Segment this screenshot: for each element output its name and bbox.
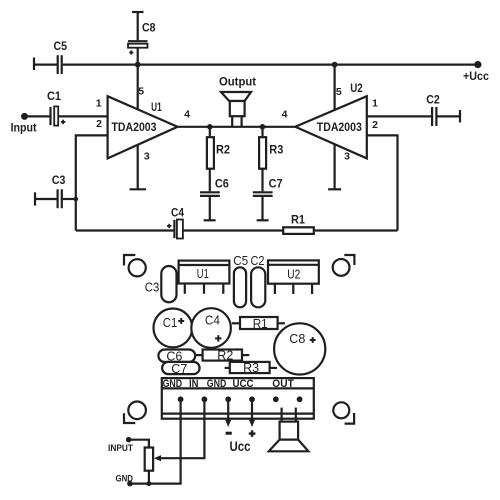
op-amp U1 TDA2003 bbox=[108, 96, 178, 158]
label C8 pcb polarity + bbox=[310, 337, 316, 343]
svg-text:R2: R2 bbox=[217, 348, 233, 363]
label minus bbox=[226, 432, 232, 435]
svg-text:C1: C1 bbox=[163, 315, 178, 330]
wire C7 bottom lead bbox=[261, 196, 263, 220]
svg-text:C2: C2 bbox=[251, 253, 265, 268]
capacitor C8 top terminal tick bbox=[132, 11, 144, 13]
IC U1 footprint bbox=[179, 261, 230, 284]
svg-text:1: 1 bbox=[96, 98, 102, 110]
node pad 5 OUT bbox=[273, 396, 279, 402]
capacitor C5 bbox=[58, 55, 62, 74]
svg-text:C2: C2 bbox=[426, 95, 440, 107]
node input dot bbox=[126, 437, 132, 443]
wire pad2 to potentiometer wiper bbox=[159, 401, 205, 458]
arrow pad4 down bbox=[249, 420, 255, 427]
svg-text:IN: IN bbox=[189, 378, 199, 390]
svg-text:4: 4 bbox=[184, 109, 190, 121]
node junction C3 bbox=[74, 197, 79, 202]
pins U2 pcb bbox=[275, 284, 312, 294]
wire speaker lead left bbox=[281, 408, 283, 422]
svg-text:Output: Output bbox=[219, 77, 256, 89]
wire pad3 minus arrow bbox=[227, 401, 229, 421]
resistor R3 bbox=[259, 137, 266, 169]
label C1 pcb polarity + bbox=[178, 318, 184, 324]
resistor R1 bbox=[283, 227, 314, 234]
wire R3 top lead bbox=[261, 127, 263, 138]
resistor R2 bbox=[207, 137, 214, 169]
wire R2 top lead bbox=[209, 127, 211, 138]
speaker pcb bbox=[269, 422, 309, 452]
svg-text:R3: R3 bbox=[269, 145, 283, 157]
svg-text:+Ucc: +Ucc bbox=[463, 71, 490, 83]
svg-text:3: 3 bbox=[144, 150, 150, 162]
svg-text:TDA2003: TDA2003 bbox=[112, 122, 157, 134]
pcb corner bracket bottom-right bbox=[345, 413, 355, 424]
arrow pad3 down bbox=[225, 420, 231, 427]
pcb mounting hole bottom-left bbox=[128, 402, 146, 420]
wire U2 pin 3 bbox=[334, 144, 336, 190]
wire U1 pin 2 bbox=[76, 135, 108, 230]
wire speaker lead right bbox=[295, 408, 297, 422]
node pad 4 UCC bbox=[249, 396, 255, 402]
pcb mounting hole bottom-right bbox=[333, 402, 349, 418]
capacitor C1 footprint bbox=[154, 309, 193, 348]
wire U1 output to U2 output bbox=[178, 126, 296, 128]
node pad 3 GND bbox=[225, 396, 231, 402]
svg-text:C8: C8 bbox=[142, 23, 156, 35]
terminal block bbox=[162, 378, 314, 419]
wire U1 pin 3 bbox=[137, 145, 139, 189]
svg-text:2: 2 bbox=[372, 119, 378, 131]
ground tick U2 pin 3 bbox=[328, 188, 341, 190]
op-amp U2 TDA2003 bbox=[295, 96, 367, 158]
node junction C8/pin5 U1 bbox=[135, 62, 141, 68]
wire U1 pin 5 bbox=[137, 65, 139, 110]
svg-text:Input: Input bbox=[11, 123, 37, 135]
svg-text:5: 5 bbox=[138, 86, 144, 98]
svg-text:R1: R1 bbox=[253, 316, 268, 331]
wire U2 pin 2 feedback bbox=[367, 135, 398, 230]
svg-text:UCC: UCC bbox=[233, 378, 254, 390]
pcb mounting hole top-right bbox=[333, 259, 350, 276]
wire C2 to right tick bbox=[437, 115, 460, 117]
node junction pin5 U2 bbox=[332, 62, 338, 68]
wire C8 bottom lead bbox=[137, 48, 139, 65]
svg-text:1: 1 bbox=[372, 98, 378, 110]
svg-text:U2: U2 bbox=[350, 83, 363, 95]
label C8 polarity + bbox=[129, 50, 133, 54]
capacitor C3 footprint bbox=[161, 266, 176, 302]
capacitor C2 right terminal tick bbox=[459, 110, 461, 122]
capacitor C6 footprint bbox=[158, 350, 195, 363]
wire pad1 to GND input bbox=[130, 401, 181, 484]
label C1 polarity + bbox=[61, 120, 65, 124]
svg-text:C5: C5 bbox=[54, 41, 68, 53]
node +Ucc terminal dot bbox=[474, 61, 481, 68]
pcb corner bracket top-left bbox=[124, 255, 135, 266]
node pad 2 IN bbox=[202, 396, 208, 402]
label C4 pcb polarity + bbox=[215, 335, 221, 341]
wire R1 to feedback riser bbox=[314, 229, 398, 231]
svg-text:R1: R1 bbox=[291, 214, 306, 226]
wire U2 pin 5 bbox=[334, 65, 336, 111]
node pad 6 OUT bbox=[297, 396, 303, 402]
svg-text:U1: U1 bbox=[197, 266, 209, 281]
wire tick to C3 bbox=[35, 198, 57, 200]
ground tick U1 pin 3 bbox=[130, 188, 147, 190]
capacitor C3 left terminal tick bbox=[34, 192, 36, 205]
pins U1 pcb bbox=[185, 284, 224, 294]
svg-text:U2: U2 bbox=[287, 267, 300, 282]
capacitor C5 left terminal tick bbox=[33, 58, 35, 71]
wire C4 to R1 bbox=[183, 229, 283, 231]
svg-text:INPUT: INPUT bbox=[108, 443, 133, 453]
ground tick C7 bbox=[257, 219, 269, 221]
node junction R3 bbox=[260, 124, 266, 130]
wire R3 to C7 bbox=[261, 169, 263, 192]
svg-text:C4: C4 bbox=[171, 208, 185, 220]
wire C3 to pin2 net bbox=[63, 198, 76, 200]
svg-text:TDA2003: TDA2003 bbox=[317, 122, 362, 134]
wire potentiometer bottom lead bbox=[148, 471, 150, 484]
svg-text:U1: U1 bbox=[151, 102, 162, 114]
svg-text:C1: C1 bbox=[47, 91, 62, 103]
capacitor C8 (electrolytic) bbox=[128, 41, 148, 48]
wire C1 to U1 pin 1 bbox=[58, 115, 107, 117]
svg-text:5: 5 bbox=[336, 86, 342, 98]
svg-text:C4: C4 bbox=[205, 313, 220, 328]
svg-text:OUT: OUT bbox=[272, 378, 294, 390]
resistor R2 footprint bbox=[195, 350, 249, 361]
svg-text:R2: R2 bbox=[216, 145, 230, 157]
svg-text:C7: C7 bbox=[171, 361, 187, 376]
capacitor C4 footprint bbox=[191, 308, 231, 348]
capacitor C2 bbox=[432, 107, 436, 126]
pcb corner bracket bottom-left bbox=[124, 413, 135, 423]
svg-text:C5: C5 bbox=[233, 253, 248, 268]
svg-text:R3: R3 bbox=[243, 360, 259, 375]
svg-text:C6: C6 bbox=[215, 179, 229, 191]
capacitor C1 (electrolytic) bbox=[51, 106, 59, 125]
resistor R3 footprint bbox=[225, 362, 277, 373]
label plus bbox=[249, 430, 256, 437]
arrow wiper into potentiometer bbox=[154, 455, 161, 461]
pcb mounting hole top-left bbox=[129, 259, 146, 276]
svg-text:C3: C3 bbox=[145, 280, 160, 295]
wire U2 pin 1 to C2 bbox=[367, 115, 431, 117]
node junction pot bottom bbox=[146, 481, 151, 486]
capacitor C2 footprint bbox=[251, 267, 265, 307]
IC U2 footprint bbox=[268, 260, 319, 283]
capacitor C7 footprint bbox=[162, 362, 200, 374]
svg-text:4: 4 bbox=[282, 109, 288, 121]
svg-text:3: 3 bbox=[344, 150, 350, 162]
capacitor C8 footprint bbox=[274, 323, 325, 374]
wire top supply rail bbox=[63, 63, 478, 65]
node gnd dot bbox=[127, 481, 133, 487]
svg-text:2: 2 bbox=[96, 118, 102, 130]
svg-text:C8: C8 bbox=[289, 331, 305, 346]
pcb corner bracket top-right bbox=[344, 255, 354, 265]
potentiometer body bbox=[145, 448, 153, 471]
wire R2 to C6 bbox=[209, 169, 211, 192]
resistor R1 footprint bbox=[232, 317, 285, 329]
capacitor C7 bbox=[253, 192, 273, 196]
node Input terminal dot bbox=[21, 113, 28, 120]
svg-text:Ucc: Ucc bbox=[230, 438, 251, 454]
label C4 polarity + bbox=[167, 224, 171, 228]
wire speaker leads bbox=[232, 116, 241, 127]
wire pad4 plus arrow bbox=[251, 401, 253, 421]
capacitor C6 bbox=[200, 192, 220, 196]
wire feedback bottom left segment bbox=[76, 229, 174, 231]
ground tick C6 bbox=[204, 219, 216, 221]
capacitor C5 footprint bbox=[234, 267, 246, 307]
svg-text:GND: GND bbox=[207, 378, 227, 390]
wire C8 top lead bbox=[137, 12, 139, 40]
svg-text:C7: C7 bbox=[269, 179, 283, 191]
capacitor C3 bbox=[58, 189, 62, 208]
svg-text:C3: C3 bbox=[52, 175, 66, 187]
svg-text:GND: GND bbox=[163, 378, 183, 390]
wire Input to C1 bbox=[25, 115, 50, 117]
node junction R2 bbox=[207, 124, 213, 130]
wire tick to C5 bbox=[34, 63, 57, 65]
node pad 1 GND bbox=[178, 396, 184, 402]
capacitor C4 (electrolytic) bbox=[174, 220, 183, 239]
wire C6 bottom lead bbox=[209, 196, 211, 220]
wire input to potentiometer bbox=[129, 440, 149, 448]
speaker Output bbox=[221, 92, 251, 116]
